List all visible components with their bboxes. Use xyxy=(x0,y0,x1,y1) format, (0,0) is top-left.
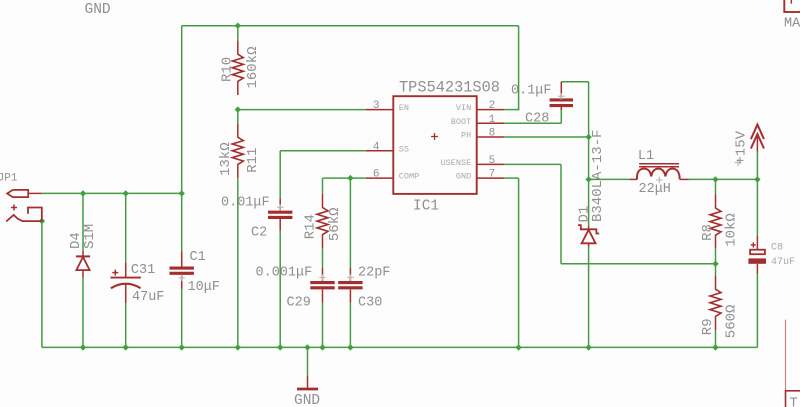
capacitor C1 10uF xyxy=(170,252,194,289)
svg-text:B340LA-13-F: B340LA-13-F xyxy=(590,130,606,222)
capacitor C2 0.01uF xyxy=(268,199,292,231)
svg-text:GND: GND xyxy=(456,172,471,182)
svg-text:10μF: 10μF xyxy=(188,280,220,295)
svg-text:7: 7 xyxy=(489,169,496,181)
node junction GND rail x=181.7 xyxy=(179,344,185,350)
wire +15V up xyxy=(756,152,758,180)
svg-text:R8: R8 xyxy=(700,224,716,241)
capacitor C29 0.001uF xyxy=(310,268,334,303)
value 13k for R11 xyxy=(218,142,234,176)
inductor L1 22uH xyxy=(630,164,689,180)
connector JP1 plus sign xyxy=(11,205,17,211)
wire D1 to GND rail xyxy=(588,247,590,348)
name IC1 xyxy=(413,198,439,214)
node junction GND rail x=350.4 xyxy=(347,344,353,350)
svg-text:C1: C1 xyxy=(190,250,206,265)
pin name USENSE xyxy=(441,158,472,168)
svg-text:160kΩ: 160kΩ xyxy=(245,46,261,88)
wire R11 to GND rail xyxy=(237,178,239,347)
node junction GND rail x=237.8 xyxy=(235,344,241,350)
svg-text:T: T xyxy=(790,397,798,407)
svg-text:C31: C31 xyxy=(131,263,155,278)
svg-text:COMP: COMP xyxy=(399,172,419,182)
wire C8 to GND rail xyxy=(756,274,758,348)
wire PH row xyxy=(504,136,588,138)
capacitor C31 47uF xyxy=(111,263,141,303)
pin number 4 xyxy=(373,141,380,153)
svg-text:8: 8 xyxy=(489,128,496,140)
svg-text:47uF: 47uF xyxy=(771,257,795,268)
svg-text:L1: L1 xyxy=(638,149,654,164)
diode D1 B340LA-13-F xyxy=(578,225,599,246)
value TPS54231S08 xyxy=(399,78,500,96)
node junction GND rail x=125.7 xyxy=(123,344,129,350)
value B340LA-13-F for D1 xyxy=(590,130,606,222)
value 56k for R14 xyxy=(327,207,343,241)
wire PH vertical from C28 xyxy=(588,82,590,137)
svg-text:56kΩ: 56kΩ xyxy=(327,207,343,241)
svg-text:PH: PH xyxy=(461,131,471,141)
name R14 xyxy=(303,214,319,239)
name C1 xyxy=(190,250,206,265)
IC1 pin 6 COMP stub xyxy=(366,177,393,179)
svg-text:1: 1 xyxy=(489,114,496,126)
value 0.1uF for C28 xyxy=(511,84,552,99)
resistor R10 160k xyxy=(232,41,243,95)
label T partial bottom-right xyxy=(790,397,798,407)
label JP1 xyxy=(0,173,18,185)
wire C30 to GND rail xyxy=(349,303,351,348)
name C28 xyxy=(525,112,549,127)
svg-text:BOOT: BOOT xyxy=(451,117,471,127)
wire GND bottom rail xyxy=(42,346,758,348)
node junction GND rail x=322.5 xyxy=(319,344,325,350)
wire COMP row xyxy=(323,177,366,179)
name C31 xyxy=(131,263,155,278)
name R8 xyxy=(700,224,716,241)
resistor R8 10k xyxy=(710,194,721,248)
IC1 pin 2 VIN stub xyxy=(477,109,504,111)
resistor R11 13k xyxy=(232,123,243,178)
value 47uF for C8 xyxy=(771,257,795,268)
svg-text:USENSE: USENSE xyxy=(441,158,472,168)
pin number 3 xyxy=(373,100,380,112)
connector JP1 pin 1 flag xyxy=(7,190,41,197)
node junction top rail at R10 xyxy=(235,23,241,29)
wire R11 top gap xyxy=(237,110,239,124)
node junction R8 top xyxy=(712,176,718,182)
pin name VIN xyxy=(456,103,471,113)
wire C31 top gap xyxy=(125,193,127,262)
pin number 8 xyxy=(489,128,496,140)
name R10 xyxy=(220,57,236,82)
wire JP1 row xyxy=(41,192,181,194)
supply +15V origin cross xyxy=(735,159,742,166)
svg-text:0.1μF: 0.1μF xyxy=(511,84,552,99)
svg-text:3: 3 xyxy=(373,100,380,112)
node junction PH xyxy=(585,134,591,140)
wire EN row xyxy=(238,109,366,111)
wire C31 to GND rail xyxy=(125,303,127,347)
wire USENSE row xyxy=(504,163,561,165)
wire L1 row left xyxy=(589,178,630,180)
capacitor C28 0.1uF xyxy=(550,82,573,110)
wire C2 to GND rail xyxy=(279,231,281,348)
connector bottom-right partial box xyxy=(786,391,800,407)
node junction COMP xyxy=(347,175,353,181)
wire VIN top rail xyxy=(182,25,519,27)
value 22uH for L1 xyxy=(639,182,671,197)
node junction GND rail x=83 xyxy=(80,344,86,350)
IC1 pin 5 USENSE stub xyxy=(477,163,504,165)
value 0.01uF for C2 xyxy=(221,195,270,210)
name C29 xyxy=(287,295,311,310)
wire GND pin row xyxy=(504,177,518,179)
capacitor C29 origin cross xyxy=(319,274,325,280)
name D1 xyxy=(577,206,593,223)
node junction GND rail x=280.2 xyxy=(277,344,283,350)
wire R14 to C29 xyxy=(322,248,324,268)
svg-text:5: 5 xyxy=(489,155,496,167)
svg-text:2: 2 xyxy=(489,100,496,112)
pin number 2 xyxy=(489,100,496,112)
resistor R14 56k xyxy=(317,194,328,248)
IC1 pin 7 GND stub xyxy=(477,177,504,179)
diode D4 S1M xyxy=(76,251,90,278)
svg-text:4: 4 xyxy=(373,141,380,153)
wire L1 row right xyxy=(689,178,758,180)
svg-text:22pF: 22pF xyxy=(358,266,390,281)
wire C29 to GND rail xyxy=(322,303,324,348)
node junction D4 top xyxy=(80,190,86,196)
net label GND top-left xyxy=(85,2,111,18)
pin name BOOT xyxy=(451,117,471,127)
svg-text:MA: MA xyxy=(784,16,800,31)
wire R10 bottom gap xyxy=(237,26,239,41)
node junction JP1 pin2 xyxy=(39,218,45,224)
node junction +15V xyxy=(754,176,760,182)
wire R9 top gap xyxy=(715,264,717,276)
value 10k for R8 xyxy=(724,213,740,247)
node junction EN divider xyxy=(235,106,241,112)
node junction GND rail x=715.5 xyxy=(712,344,718,350)
IC1 pin 3 EN stub xyxy=(366,109,393,111)
wire VIN left vertical xyxy=(181,26,183,252)
node junction C31 top xyxy=(123,190,129,196)
wire D1 top gap xyxy=(588,179,590,226)
svg-text:C8: C8 xyxy=(771,243,783,254)
svg-text:JP1: JP1 xyxy=(0,173,18,185)
capacitor C2 origin cross xyxy=(277,204,283,210)
node junction PH-L1-D1 xyxy=(585,176,591,182)
ground GND symbol xyxy=(297,347,318,389)
wire D4 to GND rail xyxy=(82,278,84,348)
svg-text:R9: R9 xyxy=(700,318,716,335)
wire +15V down to C8 xyxy=(756,179,758,236)
wire feedback row xyxy=(561,263,716,265)
pin name PH xyxy=(461,131,471,141)
value 0.001uF for C29 xyxy=(256,266,313,281)
pin name SS xyxy=(399,144,409,154)
svg-text:SS: SS xyxy=(399,144,409,154)
ground label GND bottom xyxy=(294,393,320,407)
wire PH down to L1 row xyxy=(588,137,590,179)
connector top-right partial box xyxy=(784,0,800,12)
value 160k for R10 xyxy=(245,46,261,88)
value 22pF for C30 xyxy=(358,266,390,281)
wire COMP drop to C30 xyxy=(349,178,351,268)
inductor L1 origin cross xyxy=(656,177,662,183)
wire R8 top gap xyxy=(715,179,717,194)
pin number 5 xyxy=(489,155,496,167)
op-amp IC1 TPS54231S08 body xyxy=(393,96,476,194)
wire D4 top gap xyxy=(82,193,84,250)
capacitor C1 origin cross xyxy=(179,275,185,281)
wire GND pin drop xyxy=(518,178,520,347)
pin number 1 xyxy=(489,114,496,126)
name C8 xyxy=(771,243,783,254)
name R11 xyxy=(245,148,261,173)
svg-text:C2: C2 xyxy=(251,225,267,240)
name C2 xyxy=(251,225,267,240)
pin name GND xyxy=(456,172,471,182)
svg-text:6: 6 xyxy=(373,169,380,181)
svg-text:TPS54231S08: TPS54231S08 xyxy=(399,78,500,96)
capacitor C28 origin cross xyxy=(558,93,564,99)
pin number 6 xyxy=(373,169,380,181)
wire COMP drop to R14 xyxy=(322,178,324,194)
svg-text:IC1: IC1 xyxy=(413,198,439,214)
value S1M for D4 xyxy=(82,224,98,249)
pin name EN xyxy=(399,103,409,113)
node junction C1 top xyxy=(179,190,185,196)
supply +15V arrow xyxy=(751,125,764,152)
svg-text:S1M: S1M xyxy=(82,224,98,249)
name C30 xyxy=(358,295,382,310)
wire JP1 pin2 column xyxy=(41,221,43,347)
wire VIN right drop to pin 2 xyxy=(504,26,519,110)
svg-text:R10: R10 xyxy=(220,57,236,82)
pin name COMP xyxy=(399,172,419,182)
name D4 xyxy=(68,232,84,249)
svg-text:C28: C28 xyxy=(525,112,549,127)
svg-text:0.01μF: 0.01μF xyxy=(221,195,270,210)
svg-text:EN: EN xyxy=(399,103,409,113)
pin number 7 xyxy=(489,169,496,181)
IC1 pin 4 SS stub xyxy=(366,150,393,152)
IC1 origin cross xyxy=(431,133,438,140)
node junction GND rail x=307.5 xyxy=(304,344,310,350)
net label +15V xyxy=(733,130,749,164)
capacitor C8 plus sign xyxy=(751,242,756,247)
wire C28 top to PH drop xyxy=(561,81,588,83)
svg-text:C29: C29 xyxy=(287,295,311,310)
name L1 xyxy=(638,149,654,164)
svg-text:R14: R14 xyxy=(303,214,319,239)
connector JP1 pin 2 contact xyxy=(6,208,42,222)
value 47uF for C31 xyxy=(132,290,164,305)
capacitor C31 plus sign xyxy=(112,270,118,276)
svg-text:47uF: 47uF xyxy=(132,290,164,305)
svg-text:22μH: 22μH xyxy=(639,182,671,197)
value 560 for R9 xyxy=(724,305,740,339)
capacitor C30 origin cross xyxy=(347,274,353,280)
capacitor C8 47uF xyxy=(748,236,766,274)
wire BOOT up to C28 xyxy=(560,107,562,124)
resistor R9 560 xyxy=(710,275,721,330)
svg-text:GND: GND xyxy=(294,393,320,407)
IC1 pin 8 PH stub xyxy=(477,136,504,138)
svg-text:0.001μF: 0.001μF xyxy=(256,266,313,281)
svg-text:10kΩ: 10kΩ xyxy=(724,213,740,247)
wire R8 bottom gap xyxy=(715,249,717,264)
svg-text:C30: C30 xyxy=(358,295,382,310)
wire USENSE drop xyxy=(560,164,562,263)
node junction GND rail x=518.6 xyxy=(515,344,521,350)
wire C1 to GND rail xyxy=(181,289,183,348)
wire BOOT row xyxy=(504,122,561,124)
svg-text:VIN: VIN xyxy=(456,103,471,113)
svg-text:+15V: +15V xyxy=(733,130,749,164)
IC1 pin 1 BOOT stub xyxy=(477,122,504,124)
wire SS row xyxy=(280,150,366,152)
label MA partial top-right xyxy=(784,16,800,31)
svg-text:560Ω: 560Ω xyxy=(724,305,740,339)
wire SS drop to C2 xyxy=(279,151,281,199)
svg-text:13kΩ: 13kΩ xyxy=(218,142,234,176)
wire R9 bottom gap xyxy=(715,330,717,347)
wire bottom-right thin lead xyxy=(785,320,787,391)
node junction R8-R9 xyxy=(712,261,718,267)
capacitor C30 22pF xyxy=(338,268,362,303)
value 10uF for C1 xyxy=(188,280,220,295)
name R9 xyxy=(700,318,716,335)
svg-text:R11: R11 xyxy=(245,148,261,173)
node junction GND rail x=588.6 xyxy=(585,344,591,350)
svg-text:GND: GND xyxy=(85,2,111,18)
